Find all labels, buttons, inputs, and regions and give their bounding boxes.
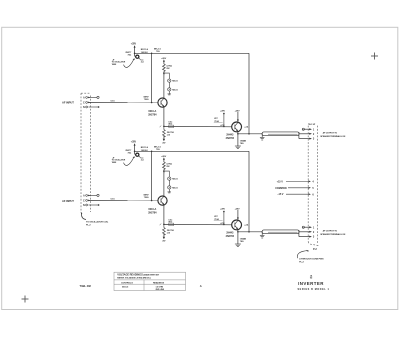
svg-text:AF INPUT: AF INPUT [62, 100, 74, 104]
connector P-2 note [297, 242, 324, 264]
wire rail drop (ch2) [248, 151, 250, 232]
svg-text:CONTROLS: CONTROLS [121, 282, 133, 284]
label V2 type [226, 134, 235, 140]
svg-text:+15 V: +15 V [277, 180, 284, 183]
wire arc from oscillator to Q2 base [124, 158, 134, 166]
svg-text:2W: 2W [166, 68, 169, 70]
svg-text:METER. VOLTAGES LISTED ARE DC): METER. VOLTAGES LISTED ARE DC) [117, 277, 151, 280]
note AF OUTPUT (ch2) [320, 230, 346, 236]
node -15V row [277, 193, 314, 196]
choke L1 [262, 132, 299, 139]
svg-text:2ND LINE: 2ND LINE [156, 289, 165, 291]
label V4 type [226, 232, 235, 238]
svg-text:AF OUTPUT TO: AF OUTPUT TO [323, 230, 338, 233]
tick at junction (ch2) [160, 224, 162, 226]
svg-text:2W 75Ω: 2W 75Ω [167, 229, 175, 232]
svg-text:A: A [200, 284, 202, 288]
ground (choke L2 left) [260, 232, 265, 238]
junction rail/output (ch2) [248, 231, 250, 233]
svg-text:1N44B: 1N44B [240, 140, 247, 143]
wire to V4 base [164, 223, 232, 225]
wire return to terminal 9 [299, 236, 310, 238]
node C terminal / input wire to V3 [83, 198, 158, 202]
node +28V feed at Q2 [131, 142, 137, 155]
svg-text:4 THROUGH CONN PINS: 4 THROUGH CONN PINS [299, 258, 324, 261]
svg-text:AF OUTPUT TO: AF OUTPUT TO [323, 132, 338, 135]
wire choke to terminal 8 [299, 231, 310, 233]
svg-text:2W: 2W [166, 166, 169, 168]
svg-text:78Ω: 78Ω [240, 142, 244, 145]
note TO OSCILLATOR TANK (ch2) [112, 157, 126, 164]
svg-text:710Ω: 710Ω [214, 218, 219, 221]
junction choke L2 input [261, 231, 263, 233]
node +28V arrow into V4 collector [235, 208, 241, 220]
tube V3 [158, 196, 167, 205]
wire V3 emitter [163, 205, 165, 225]
label 6TC boxed (ch2) [214, 216, 223, 221]
label V1 type [148, 110, 157, 116]
wire lamp branch [164, 73, 169, 79]
lamp DS3 [168, 177, 179, 181]
node +28V arrow at R1 [161, 58, 167, 64]
svg-text:2N2784: 2N2784 [226, 137, 235, 140]
junction at R5 bottom [163, 170, 165, 172]
resistor R2 [162, 126, 174, 137]
label V3 type [148, 208, 157, 214]
wire V4 emitter down [237, 230, 239, 244]
lamp DS2 [168, 88, 179, 92]
svg-text:+28V: +28V [235, 208, 241, 210]
node +28V label left at V2 [220, 110, 226, 127]
tube V1 [158, 98, 167, 107]
resistor R3 label [240, 140, 247, 146]
node +28V arrow at R5 [161, 156, 167, 162]
svg-text:+28V: +28V [131, 44, 137, 46]
label L-4 tick (ch2) [141, 158, 145, 161]
svg-text:+28V: +28V [220, 110, 226, 112]
node +15V row [277, 180, 315, 183]
junction V4 emitter [237, 231, 239, 233]
svg-text:50Ω ±5: 50Ω ±5 [122, 286, 129, 288]
svg-text:NE-51: NE-51 [172, 81, 178, 83]
wire between lamps (ch2) [168, 180, 170, 186]
node N terminal [83, 106, 99, 109]
resistor R5 [162, 162, 172, 173]
junction rail/output [248, 133, 250, 135]
svg-text:2N2784: 2N2784 [148, 113, 157, 116]
choke L2 [262, 230, 299, 237]
svg-text:TO OSCILLATOR COIL: TO OSCILLATOR COIL [86, 221, 109, 224]
registration cross top-right [371, 53, 378, 60]
ground (lamp branch ch2) [168, 189, 172, 193]
label BR+1.5 (above rail ch2) [154, 147, 162, 152]
node +28V arrow into V2 collector [235, 110, 241, 122]
label BR feed (right of Q1) [141, 49, 149, 54]
wire emitter to choke L2 [238, 231, 262, 233]
node A terminal (ch2) [83, 194, 99, 197]
wire emitter to choke [238, 133, 262, 135]
note TO OSCILLATOR TANK [112, 59, 126, 66]
wire rail drop [248, 53, 250, 134]
svg-text:78Ω: 78Ω [240, 240, 244, 243]
node COMMON row [275, 187, 314, 190]
svg-text:1.5 OHM: 1.5 OHM [156, 286, 164, 288]
svg-text:SERIES B MODEL 1: SERIES B MODEL 1 [297, 288, 329, 291]
svg-text:75Ω: 75Ω [156, 50, 160, 53]
svg-text:NE-51: NE-51 [172, 187, 178, 189]
ground (R2) [163, 136, 165, 139]
wire chain to V1 [163, 73, 165, 98]
svg-text:75Ω: 75Ω [127, 53, 131, 56]
svg-text:SPEAKER TERMINALS ON: SPEAKER TERMINALS ON [320, 233, 346, 236]
wire lamp branch (ch2) [164, 171, 169, 177]
ground (lamp branch) [168, 91, 172, 95]
terminal 1 [302, 128, 315, 131]
node N terminal (ch2) [83, 204, 99, 207]
svg-text:75Ω: 75Ω [156, 148, 160, 151]
svg-text:2N2784: 2N2784 [148, 211, 157, 214]
wire collector rail (ch2) [135, 150, 249, 152]
svg-text:+28V: +28V [235, 110, 241, 112]
lamp DS4 [168, 186, 179, 190]
svg-text:TANK: TANK [112, 63, 117, 66]
junction at R1 bottom [163, 72, 165, 74]
svg-text:INVERTER: INVERTER [298, 281, 324, 286]
ground (V4 emitter) [235, 244, 241, 246]
terminal 7 [302, 226, 315, 229]
wire between lamps [168, 82, 170, 88]
title INVERTER [297, 275, 329, 291]
wire feedback stub [144, 53, 153, 104]
svg-text:2N2784: 2N2784 [226, 235, 235, 238]
resistor R6 [162, 224, 174, 235]
CONNECTOR P1 dashed outline [81, 93, 91, 212]
junction V2 emitter [237, 133, 239, 135]
oscillator coil note (bottom of P1) [81, 212, 109, 227]
wire choke to terminal 2 [299, 133, 310, 135]
resistor R1 [162, 64, 172, 75]
registration cross bottom-left [22, 296, 29, 303]
svg-text:902: 902 [310, 277, 313, 279]
junction V1 emitter [163, 126, 165, 128]
transistor Q1 [125, 52, 140, 60]
transistor Q2 [125, 150, 140, 158]
lamp DS1 [168, 79, 179, 83]
junction V3 emitter [163, 224, 165, 226]
svg-text:COMMON: COMMON [275, 187, 287, 190]
svg-text:710Ω: 710Ω [214, 120, 219, 123]
svg-text:750Ω: 750Ω [144, 196, 149, 199]
terminal strip TB dashed lines [308, 126, 317, 244]
svg-text:NE-51: NE-51 [172, 89, 178, 91]
label L-4 tick [141, 60, 145, 63]
label 6TC boxed [214, 118, 223, 123]
label BR+1.5 (above rail) [154, 49, 162, 54]
wire chain to V3 [163, 171, 165, 196]
svg-text:1N44B: 1N44B [240, 238, 247, 241]
terminal 3 [309, 138, 315, 141]
wire feedback stub (ch2) [144, 151, 153, 202]
wire collector rail [135, 52, 249, 54]
ground (V2 emitter) [235, 146, 241, 148]
svg-text:75Ω: 75Ω [127, 151, 131, 154]
wire arc from oscillator to Q1 base [124, 60, 134, 68]
svg-text:TANK: TANK [112, 161, 117, 164]
ground (R6) [163, 234, 165, 237]
svg-text:4.7KΩ: 4.7KΩ [166, 163, 172, 166]
terminal 2 [309, 133, 315, 136]
note AF OUTPUT [320, 132, 346, 138]
svg-text:TB-1 SP: TB-1 SP [308, 124, 316, 126]
svg-text:–15 V: –15 V [277, 193, 284, 196]
svg-text:2W 75Ω: 2W 75Ω [167, 131, 175, 134]
inline label box 1.5 [169, 125, 174, 128]
resistor R7 label [240, 238, 247, 244]
label BR feed (right of Q2) [141, 147, 149, 152]
terminal 8 [309, 231, 315, 234]
svg-text:T1BL 402: T1BL 402 [80, 284, 92, 288]
wire to V2 base [164, 125, 232, 127]
svg-text:+28V: +28V [131, 142, 137, 144]
node C terminal / input wire to V1 [83, 100, 158, 104]
terminal 9 [309, 236, 315, 239]
node +28V label left at V4 [220, 208, 226, 225]
junction choke input [261, 133, 263, 135]
svg-text:AF INPUT: AF INPUT [62, 199, 74, 203]
svg-text:750Ω: 750Ω [144, 98, 149, 101]
wire V1 emitter [163, 107, 165, 127]
node +28V feed at Q1 [131, 44, 137, 57]
inline label box 1.5 (ch2) [169, 223, 174, 226]
svg-text:READINGS: READINGS [153, 281, 165, 284]
tick at junction [160, 126, 162, 128]
svg-text:NE-51: NE-51 [172, 179, 178, 181]
ground (choke left) [260, 134, 265, 140]
tube V4 [232, 220, 242, 230]
svg-text:SPEAKER TERMINALS ON: SPEAKER TERMINALS ON [320, 135, 346, 138]
wire V2 emitter down [237, 132, 239, 146]
svg-text:4.7KΩ: 4.7KΩ [166, 65, 172, 68]
tube V2 [232, 122, 242, 132]
wire return to terminal 3 [299, 138, 310, 140]
node A terminal [83, 96, 99, 99]
svg-text:+28V: +28V [220, 208, 226, 210]
title table [114, 272, 186, 290]
